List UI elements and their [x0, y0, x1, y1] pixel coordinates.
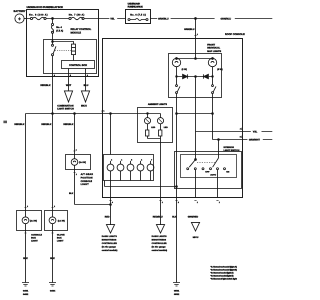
wire bulb L down — [176, 67, 178, 85]
wire map U below box — [177, 98, 213, 114]
svg-text:CONSOLE: CONSOLE — [31, 233, 42, 236]
svg-text:INTERIOR: INTERIOR — [224, 146, 235, 149]
svg-text:1: 1 — [103, 110, 104, 113]
svg-text:G502: G502 — [174, 293, 180, 296]
map switch R — [212, 85, 216, 94]
svg-text:1: 1 — [197, 201, 198, 204]
svg-text:BOX: BOX — [57, 236, 62, 239]
svg-text:LIGHT SWITCH: LIGHT SWITCH — [57, 108, 74, 111]
svg-text:1: 1 — [219, 201, 220, 204]
svg-text:(3.4 W): (3.4 W) — [30, 219, 37, 222]
map light bulb L — [172, 58, 187, 71]
svg-text:(3.4 W): (3.4 W) — [79, 161, 86, 164]
pin tick gear light bottom — [74, 172, 76, 174]
fuse No. 4 (7.5 A) — [51, 23, 63, 33]
svg-text:+: + — [18, 17, 21, 23]
svg-text:BLK: BLK — [23, 257, 28, 260]
wire WHT output — [68, 69, 70, 91]
node gauge feed junction — [110, 113, 112, 115]
svg-text:No. 7 (40 A): No. 7 (40 A) — [69, 14, 85, 17]
svg-text:6: 6 — [141, 158, 142, 161]
text dash lights brightness L — [102, 235, 118, 252]
svg-text:CONTROL BOX: CONTROL BOX — [69, 64, 87, 67]
svg-text:*1: Normal-roof model (light A: *1: Normal-roof model (light A) — [211, 266, 238, 269]
svg-text:RED/BLU: RED/BLU — [153, 216, 163, 219]
wire branch to gear position light — [74, 114, 76, 155]
wire YEL to page edge — [243, 131, 273, 133]
svg-text:G501: G501 — [174, 290, 180, 293]
pin tick bus entry left — [101, 110, 103, 112]
wire map bulb top bus — [177, 58, 213, 60]
svg-text:No. 8 (100 A): No. 8 (100 A) — [29, 14, 48, 17]
switch contacts R — [210, 168, 226, 170]
battery — [14, 10, 26, 23]
text notes — [211, 266, 238, 281]
fuse No. 8 (100 A) — [29, 14, 48, 20]
svg-text:INDIVIDUAL: INDIVIDUAL — [207, 47, 221, 50]
switch arm L — [189, 160, 195, 168]
svg-text:OFF: OFF — [205, 171, 210, 174]
node map bus junctions — [195, 58, 197, 60]
svg-text:BRIGHTNESS: BRIGHTNESS — [102, 239, 117, 242]
wire bulb R down — [212, 67, 214, 85]
wire main bus in under-hood box — [27, 18, 99, 20]
svg-text:GRN/BLU: GRN/BLU — [184, 28, 195, 31]
page edge mark — [3, 121, 7, 124]
svg-text:BOX: BOX — [31, 236, 36, 239]
svg-text:MICU: MICU — [193, 236, 199, 239]
diode L — [183, 74, 188, 78]
svg-text:3: 3 — [87, 74, 88, 77]
arrow GRN/RED to MICU — [191, 222, 199, 231]
svg-text:LIGHT: LIGHT — [31, 239, 38, 242]
svg-text:RED/BLK: RED/BLK — [41, 123, 51, 126]
pin tick gear light top — [73, 150, 75, 152]
svg-text:AMBIENT LIGHTS: AMBIENT LIGHTS — [148, 103, 168, 106]
node gauge ground to BLK — [176, 186, 178, 188]
svg-text:4: 4 — [121, 158, 122, 161]
switch arm R — [213, 158, 219, 167]
svg-text:5: 5 — [70, 74, 71, 77]
wire console box light drop — [25, 114, 27, 211]
wire bus GRN/BLU — [151, 18, 215, 20]
svg-text:G402: G402 — [23, 293, 29, 296]
svg-text:LIGHT: LIGHT — [81, 183, 90, 186]
svg-text:LIGHT SWITCH: LIGHT SWITCH — [224, 149, 240, 152]
wire ambient bottom bus — [148, 136, 161, 143]
svg-text:CONSOLE: CONSOLE — [81, 180, 93, 183]
svg-text:3: 3 — [111, 158, 112, 161]
svg-text:1: 1 — [27, 205, 28, 208]
node GRN/WHT branch — [218, 139, 220, 141]
diode R — [203, 74, 208, 78]
glove box light — [45, 211, 68, 231]
wire switch L to box bottom — [176, 94, 178, 98]
svg-text:*2: Normal-roof model (light B: *2: Normal-roof model (light B) — [211, 269, 238, 272]
svg-text:1: 1 — [76, 149, 77, 152]
node diode bus junctions — [195, 76, 197, 78]
svg-text:7: 7 — [151, 158, 152, 161]
svg-text:*4: Sunroof model (light B): *4: Sunroof model (light B) — [211, 275, 234, 278]
text glove box light — [57, 233, 65, 242]
pin ticks console/glove light tops — [24, 207, 53, 209]
wire feed to gauge lights — [110, 114, 112, 155]
svg-text:BATTERY: BATTERY — [14, 10, 26, 13]
wire RED/BLU drop — [160, 143, 162, 225]
svg-text:GRN/RED: GRN/RED — [188, 216, 199, 219]
ground G401 — [22, 283, 29, 296]
svg-text:DASH LIGHTS: DASH LIGHTS — [102, 235, 118, 238]
pin tick roof console top — [194, 34, 196, 36]
svg-text:LIGHT: LIGHT — [57, 239, 64, 242]
wire to switch common — [195, 132, 197, 160]
svg-text:No. 6 (7.5 A): No. 6 (7.5 A) — [130, 14, 146, 17]
pin tick GRN/WHT exit — [241, 136, 243, 138]
node ambient junction — [147, 113, 149, 115]
fuse No. 6 (7.5 A) — [128, 19, 148, 21]
front individual map lights box — [169, 44, 222, 98]
switch contacts L — [187, 168, 204, 170]
svg-text:*5: Moonroof light switch ligh: *5: Moonroof light switch light — [211, 278, 238, 281]
svg-text:5: 5 — [240, 136, 241, 139]
svg-text:BLK: BLK — [69, 192, 74, 195]
console box light — [17, 211, 42, 231]
wire BLU output — [85, 69, 87, 91]
svg-text:RED/BLK: RED/BLK — [40, 84, 51, 87]
LED L — [144, 118, 155, 129]
svg-text:A/T GEAR: A/T GEAR — [81, 173, 94, 176]
wire diode bus — [177, 76, 213, 78]
svg-text:GRN/BLU: GRN/BLU — [158, 18, 169, 21]
svg-text:(In the gauge: (In the gauge — [152, 246, 167, 249]
under-hood fuse/relay box — [27, 6, 99, 77]
svg-text:G404: G404 — [50, 290, 56, 293]
svg-text:2: 2 — [54, 74, 55, 77]
svg-text:MAP LIGHTS: MAP LIGHTS — [207, 50, 221, 53]
svg-text:YEL: YEL — [253, 131, 258, 134]
svg-text:UNDER-DASH: UNDER-DASH — [128, 3, 141, 6]
node coil feed junction — [52, 41, 54, 43]
text dash lights brightness R — [152, 235, 168, 252]
wire gear light elbow to RED wire — [75, 204, 111, 206]
pin tick YEL exit — [241, 128, 243, 130]
arrow RED/BLU to dash brightness — [156, 225, 164, 233]
wire contact output RED/BLK — [52, 56, 54, 77]
node GRN/BLU junction — [195, 18, 197, 20]
svg-text:(5 W): (5 W) — [182, 68, 188, 71]
svg-text:DASH LIGHTS: DASH LIGHTS — [152, 235, 168, 238]
wire to relay coil — [53, 42, 74, 45]
svg-text:2: 2 — [178, 201, 179, 204]
svg-text:5: 5 — [131, 158, 132, 161]
svg-text:RED/BLK: RED/BLK — [14, 123, 24, 126]
wire GRN/WHT to page edge — [243, 139, 273, 141]
svg-text:POSITION: POSITION — [81, 177, 93, 180]
svg-text:ROOF CONSOLE: ROOF CONSOLE — [225, 33, 245, 36]
interior light switch box — [175, 146, 242, 189]
wire GRN/WHT route — [213, 114, 243, 140]
svg-text:BLK: BLK — [50, 257, 55, 260]
svg-text:BLK: BLK — [172, 216, 177, 219]
wire RED drop — [110, 181, 112, 225]
svg-text:LED: LED — [151, 126, 156, 129]
svg-text:control module): control module) — [152, 249, 168, 252]
fuse No. 7 (40 A) — [69, 14, 85, 20]
resistor L — [146, 124, 149, 136]
svg-text:4: 4 — [112, 201, 113, 204]
text console box light — [31, 233, 42, 242]
svg-text:BRIGHTNESS: BRIGHTNESS — [152, 239, 167, 242]
svg-text:1: 1 — [197, 33, 198, 36]
arrow RED to dash brightness — [106, 225, 114, 233]
node elbow junction — [110, 204, 112, 206]
pin ticks under-hood box exits — [51, 76, 86, 78]
svg-text:UNDER-HOOD FUSE/RELAY BOX: UNDER-HOOD FUSE/RELAY BOX — [27, 6, 64, 9]
svg-text:(7.5 A): (7.5 A) — [56, 29, 63, 32]
svg-text:4: 4 — [240, 128, 241, 131]
wire BLK vertical — [176, 114, 178, 283]
svg-text:CONTROLLER: CONTROLLER — [102, 242, 117, 245]
svg-text:MICU: MICU — [81, 104, 87, 107]
under-dash fuse/relay box — [126, 3, 151, 24]
wire console light ground — [25, 231, 27, 283]
wire RED/BLK vertical to glove box light — [52, 77, 54, 211]
node bus junction — [52, 18, 54, 20]
wire fuse4 to relay module — [52, 33, 54, 41]
svg-text:AUTO: AUTO — [210, 174, 216, 177]
node branch to gear position light — [74, 113, 76, 115]
text gear position light — [81, 173, 94, 186]
svg-text:(3.4 W): (3.4 W) — [58, 219, 65, 222]
wire gear light down — [74, 170, 76, 205]
wire GRN/BLU into map box — [195, 39, 197, 59]
map light bulb R — [208, 58, 223, 71]
arrow to combination light switch — [64, 91, 72, 102]
svg-text:G401: G401 — [23, 290, 29, 293]
resistor R — [159, 124, 162, 136]
svg-text:(5 W): (5 W) — [217, 68, 223, 71]
svg-text:MODULE: MODULE — [71, 31, 82, 34]
node U junctions — [176, 113, 178, 115]
wire switch R stem — [217, 170, 219, 198]
LED R — [157, 118, 168, 129]
ground G501 — [173, 283, 180, 296]
wire GRN/BLU drop to roof console — [195, 19, 197, 39]
svg-text:No. 4: No. 4 — [56, 26, 62, 29]
svg-text:WHT: WHT — [66, 84, 72, 87]
pin ticks light bottoms — [24, 232, 53, 234]
wire bus to under-dash box — [99, 18, 126, 20]
svg-text:RED/BLK: RED/BLK — [63, 123, 73, 126]
svg-text:FRONT: FRONT — [207, 44, 215, 47]
node RED/BLK bus junction — [52, 113, 54, 115]
gauge lights box — [104, 155, 154, 181]
svg-text:(In the gauge: (In the gauge — [102, 246, 117, 249]
svg-text:1: 1 — [76, 173, 77, 176]
svg-text:BLU: BLU — [84, 84, 89, 87]
wire glove light ground — [52, 231, 54, 283]
relay coil — [72, 44, 76, 55]
arrow to MICU — [81, 91, 89, 102]
svg-text:*3: Sunroof model (light A): *3: Sunroof model (light A) — [211, 272, 234, 275]
map switch L — [176, 85, 180, 94]
wire dashed relay link — [55, 50, 72, 52]
svg-text:FUSE/RELAY BOX: FUSE/RELAY BOX — [128, 6, 144, 9]
gauge bulbs — [107, 158, 154, 180]
wire switch R to box bottom — [212, 94, 214, 98]
wire YEL exit — [196, 131, 243, 133]
ambient lights box — [138, 103, 173, 143]
wire branch to fuse No.4 — [52, 19, 54, 24]
roof console box — [103, 33, 246, 197]
wire gauge ground bus — [105, 181, 177, 187]
node switch common L — [195, 159, 197, 161]
svg-text:CONTROLLER: CONTROLLER — [152, 242, 167, 245]
wire bus to right edge — [235, 18, 272, 20]
svg-text:control module): control module) — [102, 249, 118, 252]
ground G404 — [49, 283, 56, 293]
svg-text:ON: ON — [226, 171, 230, 174]
svg-text:GLOVE: GLOVE — [57, 233, 65, 236]
wire center feed down — [195, 77, 197, 132]
svg-text:1: 1 — [54, 205, 55, 208]
svg-text:RED: RED — [105, 216, 110, 219]
wire battery to under-hood box — [24, 18, 26, 20]
wire coil to control box — [73, 55, 75, 61]
svg-text:GRN/BLU: GRN/BLU — [221, 18, 232, 21]
svg-text:1: 1 — [162, 201, 163, 204]
relay contact — [52, 42, 57, 56]
gear position console light box — [66, 155, 91, 170]
control box — [62, 61, 95, 69]
wire horizontal bus y113 — [26, 113, 138, 115]
svg-text:COMBINATION: COMBINATION — [57, 104, 74, 107]
wire switch L stem — [195, 170, 197, 198]
pin ticks bottom exits — [109, 200, 218, 202]
svg-text:GRN/WHT: GRN/WHT — [249, 139, 261, 142]
wire ambient feed — [138, 114, 161, 118]
svg-text:YEL: YEL — [110, 18, 115, 21]
wire to switch R — [218, 140, 220, 159]
wire dashed gang link — [197, 162, 216, 164]
svg-text:LED: LED — [164, 126, 169, 129]
relay control module box — [44, 28, 97, 73]
